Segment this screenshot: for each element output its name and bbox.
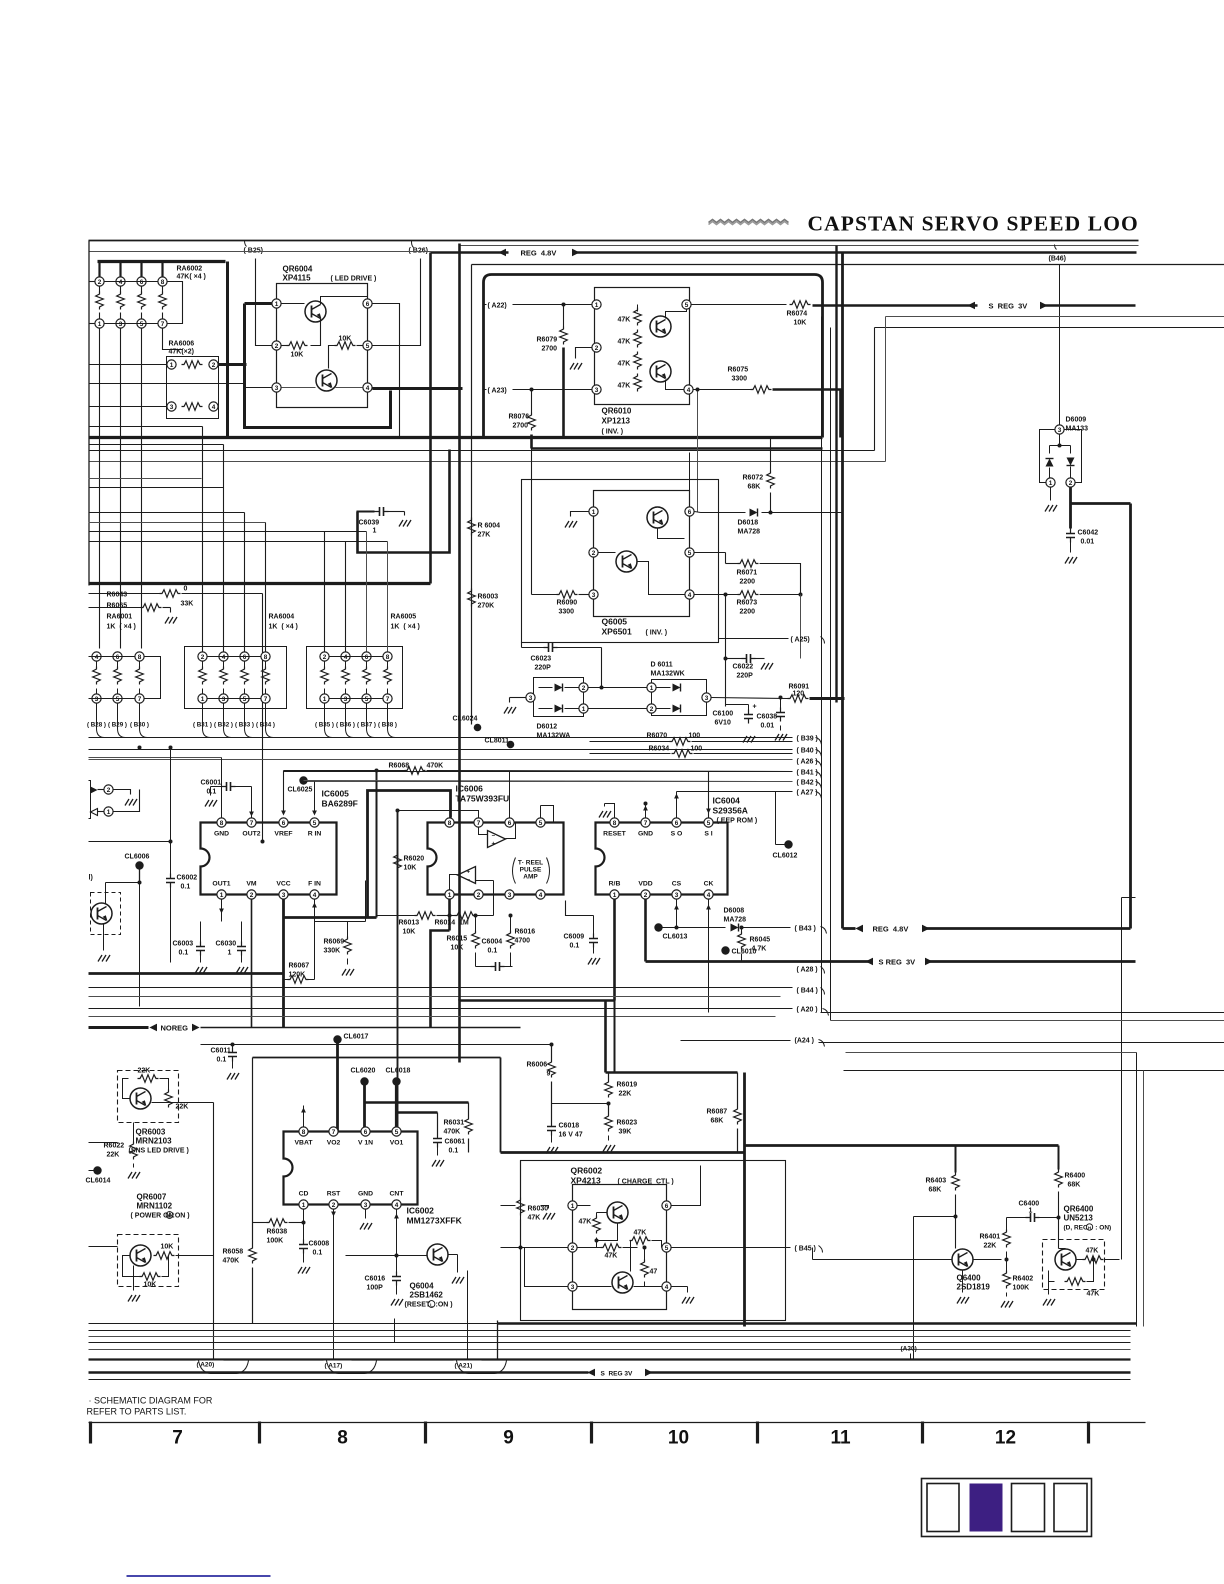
svg-text:R6065: R6065 — [107, 603, 128, 610]
resistor RA6002 element 3 — [137, 277, 146, 286]
wire thick x614 lower — [614, 1001, 616, 1073]
svg-text:100K: 100K — [1013, 1285, 1030, 1292]
wire CL6025 line — [304, 781, 793, 782]
svg-text:R6045: R6045 — [750, 937, 771, 944]
diode D6012-a — [539, 687, 553, 689]
wire conn-2 to ground — [114, 790, 131, 795]
wire line y737 to B39 — [89, 737, 793, 739]
svg-text:R6020: R6020 — [404, 856, 425, 863]
wire CK pin4 down — [708, 900, 710, 1013]
pin IC6005-3 — [279, 890, 288, 899]
svg-text:4: 4 — [707, 892, 711, 899]
wire RST down — [333, 1210, 335, 1360]
wire long line y487 — [89, 487, 224, 489]
ground R6023 — [603, 1145, 615, 1152]
wire CL6020 drop thick — [363, 1082, 366, 1132]
resistor array RA6005 box — [307, 647, 403, 709]
capacitor C6039 — [357, 511, 375, 513]
wire RA6002 pin2 stub left — [89, 281, 95, 283]
svg-text:6: 6 — [364, 1129, 368, 1136]
wire QR6010 R column — [637, 305, 639, 312]
pin IC6006-6 — [505, 818, 514, 827]
svg-text:C6011: C6011 — [211, 1048, 231, 1055]
svg-text:( B40 ): ( B40 ) — [797, 748, 818, 755]
ground C6008 — [298, 1267, 310, 1274]
resistor QR6400 47K bottom — [1065, 1278, 1086, 1286]
svg-text:R6401: R6401 — [980, 1234, 1001, 1241]
svg-text:4: 4 — [688, 592, 692, 599]
pin QR6004-1 — [272, 299, 281, 308]
ground C6009 — [588, 958, 600, 965]
resistor RA6005 element 4 — [383, 652, 392, 661]
svg-text:R6072: R6072 — [743, 475, 764, 482]
svg-text:1: 1 — [228, 950, 232, 957]
wire thick y1152 — [501, 1151, 745, 1154]
pin IC6006-1 — [445, 890, 454, 899]
wire IC6006 pin1 thick elbow — [431, 931, 450, 1028]
wire right bus x830 — [830, 328, 832, 1021]
wire bottom thick y1359 — [89, 1358, 1131, 1360]
pin QR6002-5 — [662, 1243, 671, 1252]
resistor R6004 — [468, 518, 476, 536]
ground C6038 — [775, 734, 787, 741]
wire IC6004 pin7 up — [645, 804, 647, 818]
wire long line y437 thick bus — [89, 436, 823, 439]
wire thick bus y1145 — [745, 1144, 1059, 1147]
pin D6009-3 — [1055, 425, 1064, 434]
svg-text:( B44 ): ( B44 ) — [797, 988, 818, 995]
svg-text:( A22): ( A22) — [488, 303, 507, 310]
wire RA6002 pin8 to box right — [168, 282, 183, 324]
wire long line y450 — [89, 450, 875, 452]
node CL6014 — [93, 1166, 101, 1174]
svg-text:6: 6 — [365, 654, 369, 661]
pin IC6004-7 — [641, 818, 650, 827]
capacitor C6023 — [522, 647, 544, 649]
svg-text:( A26 ): ( A26 ) — [797, 759, 818, 766]
wire D6012 to D6011 — [589, 687, 647, 689]
wire CD down — [303, 1210, 305, 1241]
op-amp IC6006-a — [488, 831, 506, 848]
svg-text:+: + — [467, 870, 471, 876]
pin QR6002-6 — [662, 1201, 671, 1210]
svg-text:3: 3 — [529, 695, 533, 702]
svg-text:GND: GND — [214, 831, 229, 838]
wire QR6002 left feeds — [501, 1205, 516, 1207]
svg-text:MA132WA: MA132WA — [537, 733, 571, 740]
wire line y791 to A27 — [677, 791, 793, 793]
svg-text:100: 100 — [691, 746, 703, 753]
svg-text:10K: 10K — [451, 945, 464, 952]
svg-text:7: 7 — [477, 820, 481, 827]
svg-text:10K: 10K — [339, 336, 352, 343]
svg-text:QR6002: QR6002 — [571, 1166, 603, 1176]
wire thin line to right edge 2 — [875, 327, 1224, 329]
svg-text:9: 9 — [547, 1071, 551, 1078]
svg-text:GND: GND — [358, 1191, 373, 1198]
svg-text:6: 6 — [366, 301, 370, 308]
svg-text:2: 2 — [107, 787, 111, 794]
svg-text:22K: 22K — [619, 1091, 632, 1098]
wire connector hooks right side — [816, 738, 822, 745]
svg-text:CL6020: CL6020 — [351, 1068, 376, 1075]
svg-text:D 6011: D 6011 — [651, 662, 673, 669]
svg-text:5: 5 — [366, 343, 370, 350]
svg-text:5: 5 — [243, 696, 247, 703]
wire y841 line — [89, 841, 171, 843]
pin D6011-3 — [702, 693, 711, 702]
wire QR6007 out — [176, 1255, 214, 1257]
diode D6018 — [701, 512, 746, 514]
transistor QR6010-a — [650, 316, 671, 337]
wire box right x500 — [500, 1058, 502, 1153]
svg-text:RA6002: RA6002 — [177, 266, 203, 273]
wire QR6004 t2 to pin3 — [282, 387, 316, 389]
wire RA6002 pin riser — [119, 262, 121, 278]
svg-text:2: 2 — [592, 550, 596, 557]
pin QR6002-3 — [568, 1282, 577, 1291]
svg-text:R6030: R6030 — [528, 1206, 549, 1213]
svg-text:( B41 ): ( B41 ) — [797, 770, 818, 777]
wire RA6002 pin1 stub left — [89, 323, 95, 325]
wire curve to bus — [245, 704, 253, 738]
svg-text:NOREG: NOREG — [161, 1024, 189, 1033]
svg-text:2SD1819: 2SD1819 — [957, 1283, 991, 1292]
svg-text:220P: 220P — [737, 673, 754, 680]
wire Q6005 pin6 line — [695, 512, 701, 513]
wire R6091 thick to bus — [810, 697, 845, 700]
svg-text:47K: 47K — [618, 383, 631, 390]
wire bottom verticals — [467, 1271, 469, 1360]
wire thick y973 — [89, 972, 284, 975]
svg-text:4: 4 — [95, 654, 99, 661]
svg-text:7: 7 — [161, 321, 165, 328]
ground C6039 — [404, 512, 406, 516]
svg-text:R6013: R6013 — [399, 920, 420, 927]
pin IC6002-4 — [392, 1200, 401, 1209]
blue mark bottom left — [127, 1575, 271, 1577]
svg-text:10K: 10K — [404, 865, 417, 872]
diode input arrow a — [91, 787, 98, 794]
wire node B46 drop to D6009 — [1059, 265, 1061, 426]
wire pin2 VM down — [251, 900, 253, 1028]
svg-text:12: 12 — [995, 1428, 1016, 1449]
svg-text:6: 6 — [675, 820, 679, 827]
svg-text:(A30): (A30) — [901, 1346, 917, 1353]
svg-text:0.01: 0.01 — [1081, 539, 1095, 546]
resistor QR6400 47K right — [1083, 1256, 1104, 1264]
svg-text:8: 8 — [220, 820, 224, 827]
wire right bus x821 — [821, 317, 823, 1013]
svg-text:( INV. ): ( INV. ) — [602, 429, 624, 436]
svg-text:7: 7 — [264, 696, 268, 703]
svg-text:R6068: R6068 — [389, 763, 410, 770]
wire CL6018 drop thick — [395, 1082, 398, 1132]
resistor QR6004 10K-1 — [287, 342, 308, 350]
wire curve to bus — [346, 704, 354, 738]
resistor RA6004 element 4 — [261, 652, 270, 661]
wire IC6005 pin1 down — [221, 900, 223, 922]
wire into RA6006 pin3 — [89, 406, 167, 408]
svg-text:68K: 68K — [711, 1118, 724, 1125]
svg-text:1K ( ×4 ): 1K ( ×4 ) — [269, 624, 298, 631]
svg-text:S I: S I — [704, 831, 712, 838]
wire QR6002 pin3 left — [525, 1248, 568, 1287]
svg-text:IC6002: IC6002 — [407, 1206, 435, 1216]
svg-text:( LED DRIVE ): ( LED DRIVE ) — [331, 276, 377, 283]
ground at QR6010 pin2 — [576, 348, 592, 359]
wire right line y1052 — [846, 1052, 1137, 1054]
ground IC6002 GND pin — [365, 1210, 367, 1219]
svg-text:QR6004: QR6004 — [283, 265, 313, 274]
wire vertical x874 — [874, 328, 876, 451]
svg-text:6: 6 — [116, 654, 120, 661]
svg-text:5: 5 — [313, 820, 317, 827]
ground D6012 pin3 — [510, 697, 526, 699]
resistor array RA6004 box — [185, 647, 287, 709]
transistor QR6010-b — [650, 361, 671, 382]
svg-text:0.1: 0.1 — [488, 948, 498, 955]
svg-text:CL6017: CL6017 — [344, 1034, 369, 1041]
svg-text:UN5213: UN5213 — [1064, 1214, 1094, 1223]
pin Q6005-4 — [685, 590, 694, 599]
wire RA6004 risers — [202, 427, 204, 652]
wire RA6002 pin7 drop — [163, 329, 183, 350]
wire bottom thick y1323 — [498, 1322, 1137, 1325]
svg-text:3: 3 — [592, 592, 596, 599]
svg-text:QR6400: QR6400 — [1064, 1205, 1094, 1214]
zone square 1 — [927, 1484, 959, 1532]
svg-text:5: 5 — [665, 1245, 669, 1252]
svg-text:C6061: C6061 — [445, 1139, 466, 1146]
svg-text:MA728: MA728 — [724, 917, 747, 924]
svg-text:IC6005: IC6005 — [322, 789, 350, 799]
pin IC6005-8 — [217, 818, 226, 827]
svg-text:S REG 3V: S REG 3V — [601, 1371, 633, 1378]
svg-text:5: 5 — [116, 696, 120, 703]
wire QR6004 pin2-R — [282, 345, 287, 347]
dashed box SNS transistor — [91, 893, 121, 935]
svg-text:R6023: R6023 — [617, 1120, 638, 1127]
svg-text:5: 5 — [539, 820, 543, 827]
svg-text:REG 4.8V: REG 4.8V — [521, 249, 557, 258]
svg-text:C6008: C6008 — [309, 1241, 330, 1248]
pin D6009-2 — [1066, 478, 1075, 487]
pin IC6005-5 — [310, 818, 319, 827]
wire RA6006 pin2 to QR6004 thick — [219, 363, 247, 366]
svg-text:22K: 22K — [984, 1243, 997, 1250]
ground C6061 — [432, 1160, 444, 1167]
dashed box QR6007 — [118, 1235, 179, 1287]
svg-text:V 1N: V 1N — [358, 1140, 373, 1147]
wire A23 line — [484, 389, 592, 391]
pin IC6006-4 — [536, 890, 545, 899]
resistor RA6001 element 1 — [92, 652, 101, 661]
wire thick y1000 — [460, 1001, 615, 1063]
svg-text:2: 2 — [650, 706, 654, 713]
svg-text:3: 3 — [571, 1284, 575, 1291]
wire C6009 top thick — [566, 901, 594, 916]
wire Q6400 base line — [813, 1259, 952, 1261]
wire thick x605 — [604, 1001, 607, 1073]
svg-text:10K: 10K — [144, 1282, 157, 1289]
wire right line y1012 — [821, 1012, 1224, 1014]
svg-text:QR6010: QR6010 — [602, 407, 632, 416]
svg-text:8: 8 — [138, 654, 142, 661]
resistor QR6003 22K right — [165, 1090, 173, 1108]
svg-text::ON ): :ON ) — [436, 1302, 453, 1309]
svg-text:5: 5 — [395, 1129, 399, 1136]
wire CNT down — [396, 1210, 398, 1256]
svg-text:C6009: C6009 — [564, 934, 585, 941]
wire line y749 to B40 — [89, 749, 793, 751]
svg-text:1: 1 — [582, 706, 586, 713]
svg-text:0.1: 0.1 — [449, 1148, 459, 1155]
svg-text:R6022: R6022 — [104, 1143, 125, 1150]
resistor QR6004 10K-2 — [335, 342, 356, 350]
wire bottom line y1349 — [89, 1349, 1131, 1351]
wire long line y531 — [89, 531, 367, 533]
svg-text:8: 8 — [613, 820, 617, 827]
svg-text:RA6006: RA6006 — [169, 341, 195, 348]
wire top bus line — [89, 240, 1139, 242]
pin IC6005-1 — [217, 890, 226, 899]
transistor Q6400 — [952, 1249, 973, 1270]
svg-text:C6003: C6003 — [173, 941, 194, 948]
wire CL6006 drop — [139, 866, 141, 883]
diode block D6009 box — [1040, 430, 1055, 483]
svg-text:R 6004: R 6004 — [478, 523, 501, 530]
node A20 bottom — [196, 1361, 224, 1370]
svg-text:VO1: VO1 — [390, 1140, 404, 1147]
svg-text:R6019: R6019 — [617, 1082, 638, 1089]
svg-text:2: 2 — [250, 892, 254, 899]
wire RA6002 pins 2-4-6-8 link — [105, 281, 158, 283]
wire x376 drop thick — [376, 771, 378, 918]
svg-text:2: 2 — [212, 362, 216, 369]
svg-text:0.1: 0.1 — [181, 884, 191, 891]
wire box around IC6002 top — [253, 1057, 501, 1059]
svg-text:(A24 ): (A24 ) — [795, 1038, 814, 1045]
wire VBAT up — [303, 1106, 305, 1127]
svg-text:BA6289F: BA6289F — [322, 799, 358, 809]
svg-text:( A27 ): ( A27 ) — [797, 790, 818, 797]
wire x913 drop — [913, 1217, 915, 1360]
wire thick bus y583 — [89, 582, 431, 585]
pin conn-2 — [104, 785, 113, 794]
svg-text:3300: 3300 — [732, 376, 748, 383]
svg-text:C6018: C6018 — [559, 1123, 580, 1130]
op-amp IC6006-b — [458, 867, 476, 884]
wire A22 line — [484, 304, 592, 306]
svg-text:68K: 68K — [929, 1187, 942, 1194]
wire QR6003 out — [152, 1102, 214, 1104]
wire REG 4.8V bus — [431, 251, 509, 254]
pin IC6004-6 — [672, 818, 681, 827]
svg-text:· SCHEMATIC DIAGRAM FOR: · SCHEMATIC DIAGRAM FOR — [89, 1396, 213, 1406]
pin IC6005-7 — [247, 818, 256, 827]
wire enclosure inner line — [471, 265, 473, 725]
ground QR6400 — [1043, 1299, 1055, 1306]
svg-text:( INV. ): ( INV. ) — [646, 630, 668, 637]
svg-text:4: 4 — [539, 892, 543, 899]
svg-text:F IN: F IN — [308, 881, 321, 888]
pin D6009-1 — [1046, 478, 1055, 487]
wire 47K to x1119 — [1105, 1259, 1120, 1261]
transistor Q6005-a — [647, 507, 668, 528]
pin IC6005-6 — [279, 818, 288, 827]
svg-text:MA728: MA728 — [738, 529, 761, 536]
pin Q6005-6 — [685, 507, 694, 516]
svg-text:CL6013: CL6013 — [663, 934, 688, 941]
resistor QR6010 47K b — [634, 330, 642, 348]
svg-text:L: L — [430, 1303, 433, 1308]
wire thick x744 drop — [743, 1073, 746, 1327]
wire RA6001 box right — [145, 657, 161, 699]
resistor R6003 — [468, 589, 476, 607]
wire QR6002 t2 wires — [578, 1286, 612, 1288]
wire vertical drop x120 — [120, 329, 122, 649]
svg-text:XP1213: XP1213 — [602, 417, 631, 426]
wire into QR6003 — [89, 1142, 118, 1144]
svg-text:(RESET: (RESET — [405, 1302, 431, 1309]
enclosure box QR6010 region — [484, 275, 823, 438]
svg-text:TA75W393FU: TA75W393FU — [456, 794, 510, 804]
wire vertical drop x99 — [99, 329, 101, 649]
resistor QR6003 22K top — [138, 1075, 159, 1083]
svg-text:3300: 3300 — [559, 609, 575, 616]
wire R6068 to IC6005 pin6 — [283, 771, 285, 813]
ic IC6002 box — [284, 1132, 418, 1205]
pin QR6010-3 — [592, 385, 601, 394]
svg-text:C6030: C6030 — [216, 941, 237, 948]
svg-text:R6071: R6071 — [737, 570, 758, 577]
wire top bus line 2 — [461, 245, 1139, 247]
svg-text:4: 4 — [687, 387, 691, 394]
svg-text:4700: 4700 — [515, 938, 531, 945]
ground C6003 — [195, 967, 207, 974]
wire R6079 vertical thick — [562, 348, 565, 438]
svg-text:4: 4 — [665, 1284, 669, 1291]
svg-text:MM1273XFFK: MM1273XFFK — [407, 1216, 463, 1226]
transistor QR6002-a — [607, 1202, 628, 1223]
wire D6011 pin3 line to R6091 — [712, 698, 788, 699]
svg-text:7: 7 — [250, 820, 254, 827]
svg-text:RA6001: RA6001 — [107, 614, 133, 621]
node A25 — [719, 638, 789, 640]
svg-text:11: 11 — [830, 1428, 851, 1449]
svg-text:R6090: R6090 — [557, 600, 578, 607]
svg-text:47K: 47K — [618, 317, 631, 324]
wire long line y426 — [89, 426, 203, 428]
svg-text:CL6014: CL6014 — [86, 1178, 111, 1185]
svg-text:R6043: R6043 — [107, 592, 128, 599]
svg-text:16 V 47: 16 V 47 — [559, 1132, 583, 1139]
svg-text:Q6004: Q6004 — [410, 1282, 435, 1291]
svg-text:R IN: R IN — [308, 831, 322, 838]
svg-text:7: 7 — [138, 696, 142, 703]
zone square 2 filled purple — [970, 1484, 1003, 1532]
wire long line y541 — [89, 541, 388, 543]
wire Q6004 base line — [346, 1255, 427, 1257]
resistor QR6007 10K bottom — [140, 1273, 161, 1281]
svg-text:R6038: R6038 — [267, 1229, 288, 1236]
wire line y996 — [89, 996, 781, 998]
hybrid QR6010 pin box — [595, 288, 690, 405]
svg-text:3: 3 — [344, 696, 348, 703]
wire RA6002 pins 1-3-5-7 link — [105, 323, 158, 325]
svg-text:( B39 ): ( B39 ) — [797, 736, 818, 743]
